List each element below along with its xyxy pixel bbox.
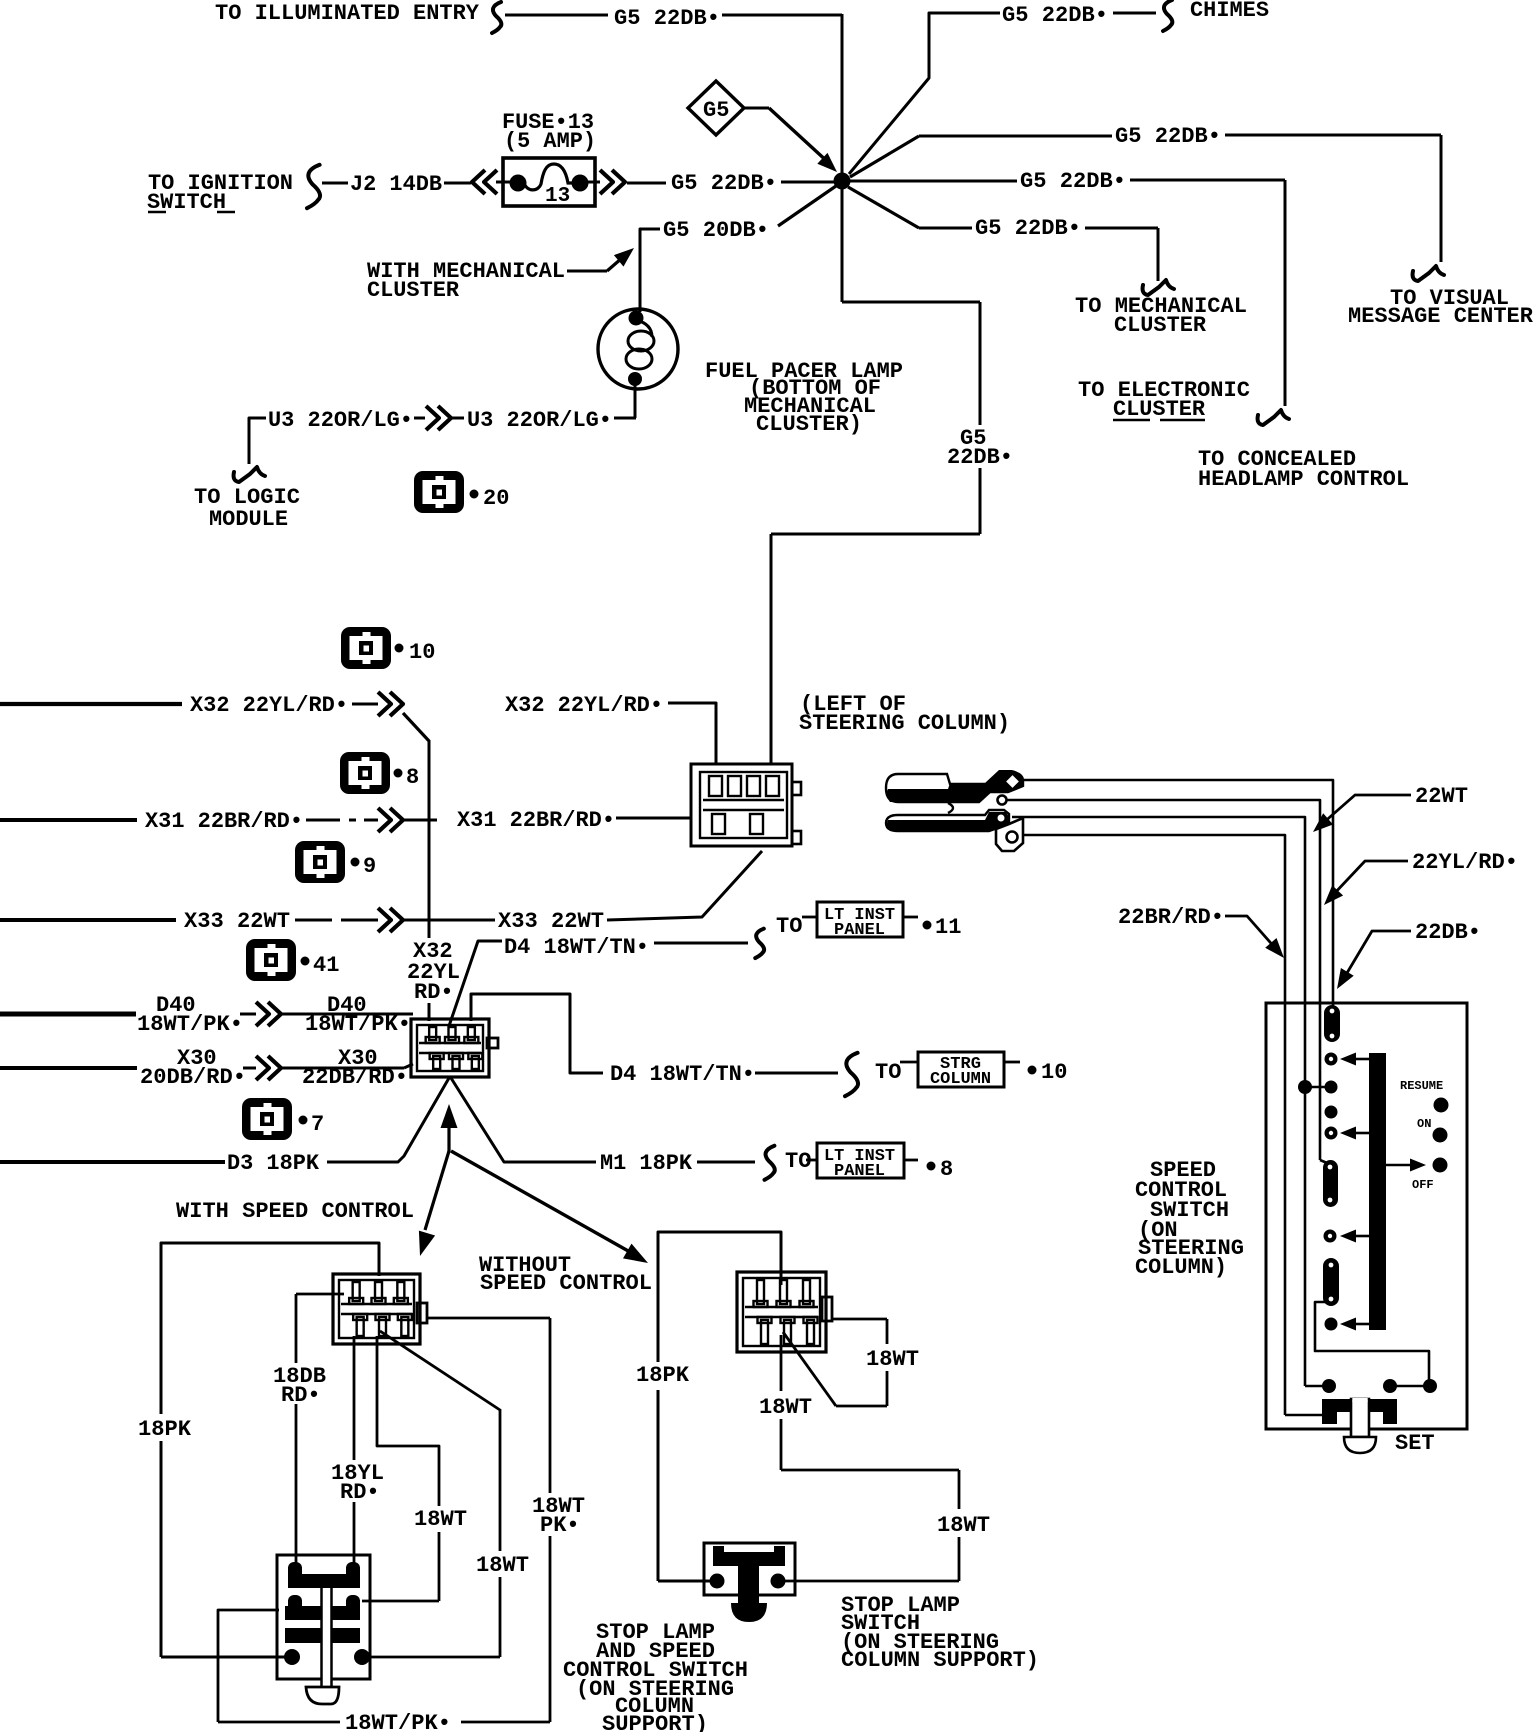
speed switch button resume [1434, 1098, 1449, 1113]
wire X31 from left [0, 818, 137, 822]
svg-text:11: 11 [935, 915, 961, 940]
svg-text:RD•: RD• [281, 1383, 321, 1408]
svg-text:RESUME: RESUME [1400, 1079, 1443, 1093]
connector icon 7 [242, 1098, 292, 1140]
svg-text:COLUMN: COLUMN [930, 1070, 991, 1089]
label G5 22DB mechanical [975, 216, 1081, 241]
break symbol chimes [1163, 0, 1172, 31]
speed switch set contact [1322, 1399, 1397, 1424]
speed switch slot 3 [1323, 1258, 1339, 1306]
label 22YL/RD pointer [1324, 850, 1518, 905]
svg-text:20DB/RD•: 20DB/RD• [140, 1065, 246, 1090]
label G5 22DB chimes [1002, 3, 1108, 28]
wire 22BR/RD inside switch [1285, 1003, 1324, 1415]
connector icon 9 [295, 841, 345, 883]
svg-text:9: 9 [363, 854, 376, 879]
wire 18WT with-SC [362, 1336, 439, 1601]
wire junction to concealed headlamp control [850, 180, 1285, 406]
arrow to without speed control [451, 1151, 648, 1263]
label 18WT/PK bottom [345, 1711, 451, 1732]
svg-text:TO: TO [785, 1149, 811, 1174]
label TO lt inst panel 8 [785, 1149, 811, 1174]
svg-text:22DB•: 22DB• [1415, 920, 1481, 945]
terminal box STRG COLUMN [900, 1052, 1020, 1089]
svg-text:D3 18PK: D3 18PK [227, 1151, 320, 1176]
label icon 8 [394, 765, 420, 790]
wire 18WT without-SC main [781, 1335, 959, 1581]
label TO lt inst panel 11 [776, 914, 802, 939]
svg-text:X33 22WT: X33 22WT [184, 909, 290, 934]
label TO LOGIC MODULE [194, 485, 300, 532]
label M1 18PK [600, 1151, 693, 1176]
wire lamp to U3 label [614, 385, 636, 418]
wire junction to G5 20DB label [778, 186, 836, 226]
label icon 9 [351, 854, 377, 879]
svg-text:RD•: RD• [340, 1480, 380, 1505]
speed switch set plunger [1344, 1398, 1376, 1453]
svg-text:20: 20 [483, 486, 509, 511]
svg-text:18WT: 18WT [759, 1395, 812, 1420]
svg-text:X31 22BR/RD•: X31 22BR/RD• [457, 808, 615, 833]
fuel pacer lamp bulb [598, 309, 678, 389]
label 18YL RD [331, 1461, 384, 1505]
wire 18PK loop without-SC [658, 1232, 781, 1581]
svg-text:7: 7 [311, 1112, 324, 1137]
svg-text:MESSAGE CENTER: MESSAGE CENTER [1348, 304, 1534, 329]
label D4 18WT/TN lower [610, 1062, 755, 1087]
label icon 7 [299, 1112, 325, 1137]
svg-text:G5 20DB•: G5 20DB• [663, 218, 769, 243]
label LEFT OF STEERING COLUMN [799, 692, 1010, 736]
wire slot3 to set contact [1315, 1302, 1429, 1380]
label icon 10 [395, 640, 436, 665]
label X33 22WT right [498, 909, 604, 934]
speed switch button on [1433, 1128, 1448, 1143]
label TO IGNITION SWITCH [147, 171, 293, 215]
wire X30 from left [0, 1066, 137, 1070]
wire 18YL/RD [353, 1336, 356, 1570]
svg-text:D4 18WT/TN•: D4 18WT/TN• [504, 935, 649, 960]
label 18WT PK [532, 1494, 585, 1538]
break symbol illuminated entry [492, 2, 501, 33]
label X32 22YL RD vertical [407, 939, 460, 1005]
wire D3 from left [0, 1160, 225, 1164]
break symbol visual message center [1413, 266, 1444, 281]
speed switch off arrow [1386, 1159, 1426, 1172]
label CHIMES [1190, 0, 1269, 23]
wire X33 to connector diagonal [607, 851, 762, 920]
wire X32 vertical [428, 740, 431, 1021]
inline connector chevrons D40 [256, 1002, 281, 1026]
label FUSE 13 5 AMP [502, 110, 596, 154]
wire 22WT inside switch [1305, 1003, 1323, 1386]
svg-text:SUPPORT): SUPPORT) [602, 1712, 708, 1732]
svg-text:COLUMN SUPPORT): COLUMN SUPPORT) [841, 1648, 1039, 1673]
switch stop lamp and speed control [277, 1555, 370, 1704]
label 18WT without-SC mid [759, 1395, 812, 1420]
label X30 20DB/RD left [140, 1046, 246, 1090]
inline connector chevrons U3 [414, 406, 464, 430]
wire X32 to chevrons [352, 703, 378, 706]
label X30 22DB/RD right [302, 1046, 408, 1090]
arrowhead with-mechanical [614, 248, 634, 267]
inline connector chevrons X30 [256, 1056, 281, 1080]
svg-text:RD•: RD• [414, 980, 454, 1005]
svg-text:18PK: 18PK [636, 1363, 690, 1388]
wire 22BR/RD to switch [1023, 835, 1285, 1004]
wire 18PK loop with-SC [161, 1243, 379, 1657]
label WITH MECHANICAL CLUSTER [367, 259, 565, 303]
svg-text:X32 22YL/RD•: X32 22YL/RD• [505, 693, 663, 718]
label FUEL PACER LAMP [705, 359, 903, 437]
label TO MECHANICAL CLUSTER [1075, 294, 1247, 338]
inline connector chevrons X33 [378, 908, 403, 932]
terminal fork lower [886, 803, 1023, 851]
svg-text:18WT: 18WT [476, 1553, 529, 1578]
speed switch slot 1 [1324, 1005, 1340, 1042]
wire junction to mechanical cluster [848, 187, 1158, 281]
svg-text:13: 13 [545, 185, 570, 208]
wire X33 dashes [295, 919, 378, 922]
svg-text:PANEL: PANEL [834, 921, 885, 940]
terminal fork upper [886, 770, 1023, 805]
wire D40 mid [240, 1013, 256, 1016]
wire ignition to J2 [322, 182, 348, 185]
wire D4 18WT/TN upper [449, 941, 748, 1026]
inline connector chevrons X32 [378, 692, 403, 716]
connector without speed control [737, 1272, 832, 1352]
svg-text:X33 22WT: X33 22WT [498, 909, 604, 934]
label 18DB RD [273, 1364, 326, 1408]
speed switch pin mid [1325, 1106, 1338, 1119]
wire 22YL/RD to switch [1007, 800, 1320, 1004]
label RESUME [1400, 1079, 1443, 1093]
wire U3 to logic module [249, 418, 266, 464]
inline connector chevrons X31 [378, 808, 403, 832]
label G5 22DB top [614, 6, 720, 31]
svg-text:22BR/RD•: 22BR/RD• [1118, 905, 1224, 930]
svg-text:18WT/PK•: 18WT/PK• [137, 1012, 243, 1037]
terminal box LT INST PANEL 11 [802, 902, 918, 940]
label OFF [1412, 1178, 1434, 1192]
switch stop lamp [704, 1543, 795, 1622]
break symbol lt inst panel 8 [765, 1146, 775, 1180]
label U3 22OR/LG right [467, 408, 612, 433]
svg-text:SET: SET [1395, 1431, 1435, 1456]
connector stop lamp and speed control switch feed [411, 1019, 498, 1077]
wire to strg column [755, 1072, 838, 1075]
wire D40 to connector [282, 1013, 413, 1016]
wire G5 20DB corner to lamp [640, 229, 660, 312]
label X32 22YL/RD right [505, 693, 663, 718]
label stop lamp switch [841, 1593, 1039, 1673]
svg-text:CLUSTER: CLUSTER [1113, 397, 1206, 422]
connector icon 8 [340, 752, 390, 794]
label X32 22YL/RD left [190, 693, 348, 718]
svg-text:10: 10 [409, 640, 435, 665]
label 18PK with-SC [138, 1417, 192, 1442]
wire X32 from left [0, 702, 182, 706]
wire 22YL/RD inside switch [1320, 1003, 1327, 1163]
svg-text:G5 22DB•: G5 22DB• [1020, 169, 1126, 194]
svg-text:8: 8 [406, 765, 419, 790]
switch speed control body [1266, 1003, 1467, 1429]
svg-text:X32 22YL/RD•: X32 22YL/RD• [190, 693, 348, 718]
label 22BR/RD pointer [1118, 905, 1284, 958]
svg-text:U3 22OR/LG•: U3 22OR/LG• [268, 408, 413, 433]
label icon 10 strg [1028, 1060, 1068, 1085]
svg-text:PK•: PK• [540, 1513, 580, 1538]
speed switch pin set2 [1325, 1318, 1370, 1331]
break symbol mechanical cluster [1143, 280, 1174, 295]
fuse 13 element [496, 164, 589, 192]
label 18WT without-SC low [937, 1513, 990, 1538]
terminal box LT INST PANEL 8 [806, 1143, 918, 1181]
svg-text:G5: G5 [703, 98, 729, 123]
label SET [1395, 1431, 1435, 1456]
junction node G5 splice [834, 173, 851, 190]
svg-text:18PK: 18PK [138, 1417, 192, 1442]
wire G5 diamond to junction [744, 108, 830, 164]
label G5 22DB concealed [1020, 169, 1126, 194]
label icon 20 [470, 486, 510, 511]
arrow up to connector [441, 1104, 458, 1152]
svg-text:18WT/PK•: 18WT/PK• [345, 1711, 451, 1732]
wire 18WT second with-SC [368, 1331, 500, 1657]
connector with speed control [333, 1274, 427, 1344]
wire 18WT without-SC loop [783, 1319, 887, 1406]
wire D3 to connector [327, 1078, 449, 1162]
wire junction to chimes [849, 13, 1156, 174]
break symbol concealed headlamp [1258, 410, 1289, 425]
label X33 22WT left [184, 909, 290, 934]
svg-text:CLUSTER: CLUSTER [367, 278, 460, 303]
label 22WT pointer [1313, 784, 1468, 832]
break symbol ignition switch [307, 165, 320, 208]
svg-text:18WT: 18WT [866, 1347, 919, 1372]
svg-text:G5 22DB•: G5 22DB• [1115, 124, 1221, 149]
inline connector chevrons left of fuse [472, 170, 497, 194]
svg-text:M1 18PK: M1 18PK [600, 1151, 693, 1176]
label TO CONCEALED HEADLAMP CONTROL [1198, 447, 1409, 492]
wire X30 to connector [282, 1064, 413, 1068]
arrow to with speed control [419, 1151, 449, 1256]
svg-text:G5 22DB•: G5 22DB• [1002, 3, 1108, 28]
wire D4 18WT/TN lower [471, 994, 603, 1073]
wire fuse to G5 label [627, 182, 666, 185]
wire X31 dashes [306, 819, 378, 822]
wire 18WT/PK [218, 1318, 550, 1722]
wire M1 to lt inst panel [697, 1161, 755, 1164]
label X31 22BR/RD left [145, 809, 303, 834]
connector icon 10 [341, 627, 391, 669]
speed switch junction 22WT [1298, 1080, 1338, 1094]
label WITH SPEED CONTROL [176, 1199, 414, 1224]
wire G5 22DB down to steering column connector [771, 302, 980, 764]
wire M1 to connector [451, 1078, 596, 1162]
speed switch bottom pins [1322, 1379, 1437, 1393]
svg-text:CLUSTER: CLUSTER [1114, 313, 1207, 338]
svg-text:(5 AMP): (5 AMP) [504, 129, 596, 154]
svg-text:TO: TO [776, 914, 802, 939]
wire 18DB/RD [296, 1294, 344, 1570]
svg-text:X31 22BR/RD•: X31 22BR/RD• [145, 809, 303, 834]
wire G5 label to junction [781, 181, 834, 184]
label stop lamp and speed control switch [563, 1620, 748, 1732]
svg-text:HEADLAMP CONTROL: HEADLAMP CONTROL [1198, 467, 1409, 492]
wire G5 22DB illuminated entry to corner [505, 14, 842, 17]
speed switch pin resume [1325, 1053, 1370, 1066]
label WITHOUT SPEED CONTROL [479, 1253, 652, 1296]
svg-text:TO ILLUMINATED ENTRY: TO ILLUMINATED ENTRY [215, 1, 480, 26]
svg-text:G5 22DB•: G5 22DB• [975, 216, 1081, 241]
svg-text:22DB/RD•: 22DB/RD• [302, 1065, 408, 1090]
svg-text:D4 18WT/TN•: D4 18WT/TN• [610, 1062, 755, 1087]
wire X31 to connector [616, 817, 692, 820]
wire 22WT to switch [1012, 817, 1305, 1004]
label TO ELECTRONIC CLUSTER [1078, 378, 1250, 422]
label SPEED CONTROL SWITCH ON STEERING COLUMN [1135, 1158, 1244, 1280]
label 22DB pointer [1337, 920, 1481, 989]
label TO strg column [875, 1060, 901, 1085]
svg-text:TO: TO [875, 1060, 901, 1085]
svg-text:OFF: OFF [1412, 1178, 1434, 1192]
speed switch contact bar [1369, 1053, 1386, 1330]
svg-text:CLUSTER): CLUSTER) [756, 412, 862, 437]
wire D40 from left [0, 1012, 136, 1017]
label J2 14DB [350, 172, 442, 197]
label G5 20DB [663, 218, 769, 243]
label D3 18PK [227, 1151, 320, 1176]
inline connector chevrons right of fuse [588, 170, 625, 194]
wire X30 mid [243, 1067, 256, 1070]
label ON [1417, 1117, 1431, 1131]
svg-text:G5 22DB•: G5 22DB• [671, 171, 777, 196]
label 18PK without-SC [636, 1363, 690, 1388]
label X31 22BR/RD right [457, 808, 615, 833]
svg-text:22WT: 22WT [1415, 784, 1468, 809]
svg-text:SPEED CONTROL: SPEED CONTROL [480, 1271, 652, 1296]
label fuse 13 value [545, 185, 570, 208]
label U3 22OR/LG left [268, 408, 413, 433]
svg-text:U3 22OR/LG•: U3 22OR/LG• [467, 408, 612, 433]
wire X33 from left [0, 918, 176, 922]
speed switch pin on [1325, 1127, 1370, 1140]
wire J2 to fuse [444, 182, 471, 185]
svg-text:22DB•: 22DB• [947, 445, 1013, 470]
label D40 18WT/PK right [305, 993, 411, 1037]
label G5 22DB vertical [947, 426, 1013, 470]
fuse 13 box [503, 158, 595, 206]
label TO ILLUMINATED ENTRY [215, 1, 480, 26]
svg-text:ON: ON [1417, 1117, 1431, 1131]
label icon 11 [923, 915, 962, 940]
wire X33 across vertical [403, 919, 495, 922]
break symbol strg column [845, 1053, 858, 1096]
svg-text:CHIMES: CHIMES [1190, 0, 1269, 23]
speed switch button off [1433, 1158, 1448, 1173]
wire with-mechanical pointer [567, 258, 622, 271]
break symbol logic module [234, 467, 265, 482]
svg-text:18WT/PK•: 18WT/PK• [305, 1012, 411, 1037]
svg-text:WITH SPEED CONTROL: WITH SPEED CONTROL [176, 1199, 414, 1224]
svg-text:8: 8 [940, 1157, 953, 1182]
wire X31 across vertical [403, 819, 437, 822]
svg-text:G5 22DB•: G5 22DB• [614, 6, 720, 31]
wire 22DB to switch [1024, 780, 1333, 1004]
label TO VISUAL MESSAGE CENTER [1348, 286, 1534, 329]
svg-text:PANEL: PANEL [834, 1162, 885, 1181]
svg-text:18WT: 18WT [414, 1507, 467, 1532]
svg-text:STEERING COLUMN): STEERING COLUMN) [799, 711, 1010, 736]
connector left of steering column [691, 764, 801, 846]
label G5 22DB visual [1115, 124, 1221, 149]
label 18WT without-SC loop [866, 1347, 919, 1372]
svg-text:18WT: 18WT [937, 1513, 990, 1538]
wire 22DB inside switch [1332, 1003, 1335, 1006]
label D40 18WT/PK left [137, 993, 243, 1037]
svg-text:COLUMN): COLUMN) [1135, 1255, 1227, 1280]
arrowhead into junction [817, 153, 837, 172]
wire X32 chevrons diagonal down [403, 713, 429, 741]
wire X32 right to connector [668, 703, 716, 764]
speed switch slot 2 [1323, 1160, 1338, 1207]
label G5 22DB fuse output [671, 171, 777, 196]
break symbol lt inst panel 11 [755, 929, 764, 958]
wire junction to visual message center [850, 135, 1441, 262]
connector icon 41 [246, 939, 296, 981]
label icon 41 [301, 953, 340, 978]
speed switch pin set1 [1324, 1230, 1370, 1243]
svg-text:41: 41 [313, 953, 339, 978]
label D4 18WT/TN upper [504, 935, 649, 960]
svg-text:J2 14DB: J2 14DB [350, 172, 442, 197]
label 18WT second with-SC [476, 1553, 529, 1578]
svg-text:22YL/RD•: 22YL/RD• [1412, 850, 1518, 875]
svg-text:MODULE: MODULE [209, 507, 288, 532]
label 18WT with-SC [414, 1507, 467, 1532]
label icon 8 panel [927, 1157, 954, 1182]
wire main vertical from top corner to junction and below [841, 14, 844, 302]
connector icon 20 [414, 471, 464, 513]
svg-text:10: 10 [1041, 1060, 1067, 1085]
connector symbol G5 diamond [688, 81, 744, 135]
